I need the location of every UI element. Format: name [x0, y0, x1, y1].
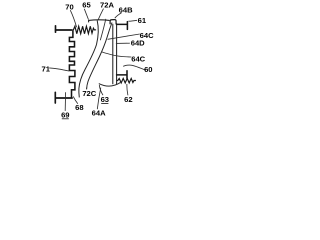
leader 68: [73, 96, 78, 103]
svg-text:63: 63: [101, 95, 109, 104]
shaft cylinder top: [110, 20, 116, 25]
svg-text:61: 61: [138, 16, 147, 25]
sleeve bottom arc 63: [99, 83, 121, 87]
leader 64C upper: [108, 34, 140, 39]
leader 69: [64, 92, 66, 111]
leader 63: [99, 85, 103, 95]
wiper arm A: [79, 21, 98, 98]
leader 70: [70, 10, 76, 27]
leader 60: [123, 65, 146, 70]
terminal T4 (60): [117, 71, 127, 79]
post at wiper pivot: [100, 19, 106, 40]
svg-text:71: 71: [41, 64, 50, 73]
svg-text:69: 69: [61, 110, 69, 119]
svg-text:64B: 64B: [119, 6, 133, 15]
leader 72A: [98, 9, 103, 20]
wiper top bend: [89, 20, 110, 23]
svg-text:72C: 72C: [82, 89, 96, 98]
svg-text:65: 65: [82, 1, 91, 10]
leader 71: [49, 68, 69, 71]
leader 64D: [116, 42, 130, 44]
resistor 65: [72, 26, 96, 33]
resistor 62: [117, 78, 136, 83]
svg-text:62: 62: [124, 95, 132, 104]
svg-text:60: 60: [144, 65, 152, 74]
svg-text:68: 68: [75, 103, 83, 112]
leader 64A: [97, 88, 101, 110]
leader 72C: [86, 88, 88, 90]
label 63 underline: [101, 102, 108, 104]
svg-text:70: 70: [65, 2, 73, 11]
staircase heater 71: [69, 31, 75, 98]
svg-text:64A: 64A: [92, 109, 106, 118]
leader 64C lower: [102, 52, 132, 57]
label 69 underline: [62, 118, 69, 120]
terminal T2 bottom-left: [55, 92, 72, 103]
leader 62: [127, 84, 128, 95]
terminal T3 (61): [117, 22, 128, 30]
svg-text:64D: 64D: [131, 38, 145, 47]
leader 65: [84, 9, 88, 20]
column sleeve 64: [113, 23, 117, 84]
leader 64B: [115, 13, 122, 18]
svg-text:72A: 72A: [100, 1, 114, 10]
svg-text:64C: 64C: [131, 54, 145, 63]
wiper arm B: [87, 23, 112, 90]
terminal T1 top-left: [56, 26, 72, 32]
leader 61: [128, 19, 137, 22]
